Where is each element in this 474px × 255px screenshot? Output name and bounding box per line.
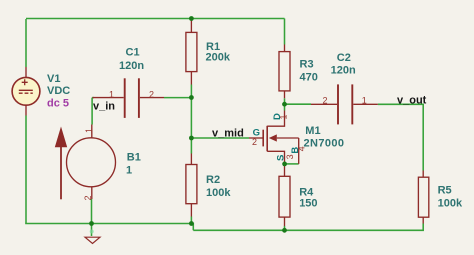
svg-text:v_out: v_out: [397, 94, 427, 106]
wire v_in vertical: [92, 98, 94, 125]
mosfet M1: [249, 111, 299, 164]
svg-text:M1: M1: [305, 125, 320, 137]
svg-text:1: 1: [84, 128, 94, 133]
channel bar: [266, 126, 268, 152]
resistor R1: [186, 19, 197, 85]
resistor R2: [186, 154, 197, 217]
source arm: [267, 151, 284, 164]
svg-text:2: 2: [252, 137, 257, 147]
svg-text:200k: 200k: [206, 51, 231, 63]
svg-text:470: 470: [300, 72, 318, 84]
capacitor C2: [311, 84, 378, 124]
wire node to C2: [285, 103, 312, 105]
drain arm: [267, 111, 284, 127]
svg-text:R5: R5: [438, 185, 452, 197]
svg-text:1: 1: [126, 165, 132, 177]
body tie to source: [298, 138, 300, 164]
resistor R4: [279, 164, 290, 226]
svg-text:2N7000: 2N7000: [304, 137, 345, 149]
ground symbol: [85, 230, 100, 244]
svg-text:V1: V1: [47, 73, 60, 85]
junction drain node: [282, 102, 287, 107]
capacitor C1: [93, 78, 165, 118]
svg-text:1: 1: [109, 90, 114, 100]
svg-text:2: 2: [83, 195, 93, 200]
svg-text:B1: B1: [127, 151, 141, 163]
gate lead: [249, 137, 263, 139]
wire R2 bottom: [190, 217, 192, 224]
svg-text:2: 2: [322, 95, 327, 105]
body arrow: [269, 134, 277, 141]
svg-text:2: 2: [149, 90, 154, 100]
body arm: [277, 137, 299, 139]
junction R2 bottom: [189, 221, 194, 226]
svg-text:100k: 100k: [206, 187, 231, 199]
wire left rail upper: [25, 19, 27, 67]
junction R4 bottom: [282, 228, 287, 233]
voltage source V1: [12, 67, 40, 116]
source B1: [55, 125, 116, 200]
svg-text:120n: 120n: [119, 60, 144, 72]
wire R1 bottom to junction: [190, 85, 192, 98]
wire R3 top: [284, 19, 286, 45]
junction B1 bottom: [89, 221, 94, 226]
wire S to R4: [285, 163, 299, 165]
wire top rail: [26, 18, 285, 20]
gate bar: [262, 130, 264, 147]
wire C2 to vout corner: [378, 104, 423, 170]
wire gnd stub: [91, 224, 93, 237]
svg-text:v_in: v_in: [93, 101, 115, 113]
wire bottom left: [25, 224, 193, 231]
junction source node: [282, 162, 287, 167]
wire v_mid vertical: [190, 98, 192, 154]
svg-text:C1: C1: [126, 46, 140, 58]
svg-text:150: 150: [299, 198, 317, 210]
junction C1 R1: [189, 95, 194, 100]
svg-text:3: 3: [285, 154, 295, 159]
svg-text:dc 5: dc 5: [47, 98, 69, 110]
svg-text:C2: C2: [337, 52, 351, 64]
wire left rail lower: [25, 116, 27, 224]
wire R4 bottom: [284, 226, 286, 230]
junction top R1: [189, 16, 194, 21]
svg-text:R3: R3: [300, 59, 314, 71]
wire B1 bottom: [91, 199, 93, 224]
svg-text:1: 1: [279, 114, 289, 119]
svg-text:1: 1: [362, 95, 367, 105]
wire C1 to junction: [164, 97, 191, 99]
svg-text:VDC: VDC: [47, 85, 70, 97]
junction v_mid: [189, 136, 194, 141]
wire bottom right: [193, 224, 423, 231]
svg-text:v_mid: v_mid: [212, 128, 244, 140]
wire R3 bottom node: [284, 98, 286, 110]
wire v_mid to gate: [191, 137, 249, 139]
svg-text:R2: R2: [206, 174, 220, 186]
resistor R3: [279, 45, 290, 99]
svg-text:120n: 120n: [331, 65, 356, 77]
resistor R5: [418, 171, 428, 224]
svg-text:100k: 100k: [438, 198, 463, 210]
